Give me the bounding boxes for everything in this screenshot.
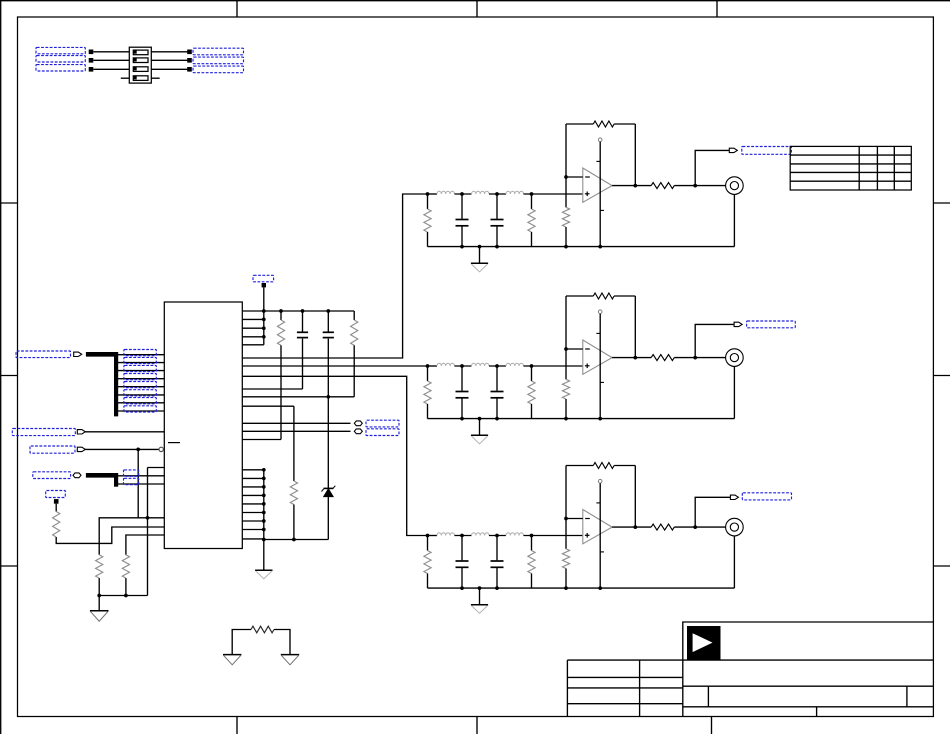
stage3 connector ground wire (733, 536, 735, 588)
junction (598, 586, 602, 590)
stage3 inverting input wire (566, 518, 583, 520)
net label input B (12, 429, 75, 436)
junction (262, 502, 266, 506)
title table row 2 (567, 687, 682, 689)
bus D branch wire 1 (116, 475, 164, 477)
wire U1 pin to Rc (242, 405, 294, 407)
wire right 2 (151, 59, 188, 61)
junction (564, 175, 568, 179)
wire power flag to rail (263, 287, 265, 311)
junction (530, 534, 534, 538)
stage3 ground stem (479, 588, 481, 605)
junction (495, 192, 499, 196)
stage2 ladder top wire seg3 (489, 365, 506, 367)
stage2 series inductor L3 (506, 363, 524, 366)
stage1 op-amp power terminal circle (598, 138, 602, 142)
junction (478, 245, 482, 249)
stage3 ground symbol (471, 604, 488, 606)
junction (495, 245, 499, 249)
stage3 ladder top wire seg2 (455, 535, 472, 537)
U1 ground pin wire 2 (242, 477, 263, 479)
stage2 series inductor L2 (472, 363, 490, 366)
net label right 2 (193, 57, 244, 64)
connector plug bus A (74, 352, 82, 356)
RN1 stub left (121, 77, 130, 79)
stage3 series inductor L2 (472, 533, 490, 536)
junction (426, 534, 430, 538)
resistor network RN1 body (129, 47, 151, 83)
junction (262, 468, 266, 472)
U1 ground pin wire 3 (242, 486, 263, 488)
junction (326, 309, 330, 313)
bus A bit label 8 (124, 406, 156, 412)
stage3 output plug (730, 495, 738, 499)
wire Re bottom (98, 578, 100, 595)
stage2 output resistor R5 (651, 355, 674, 361)
net label left 2 (36, 56, 85, 62)
junction (301, 309, 305, 313)
border zone tick right 2 (933, 375, 950, 377)
net label input C (30, 446, 75, 453)
bus D bit label 1 (124, 470, 139, 476)
stage3 op-amp plus mark (585, 534, 590, 536)
bus A branch wire 3 (116, 370, 164, 372)
test point oval 2 (354, 429, 362, 434)
U1 pin wire y328 (242, 327, 263, 329)
junction (693, 525, 697, 529)
junction (97, 594, 101, 598)
junction (495, 534, 499, 538)
U1 right pin bundle vertical (263, 311, 265, 345)
title block logo box (683, 622, 934, 716)
stage1 connector J1 inner (730, 182, 738, 190)
decoupling top rail (242, 310, 354, 312)
bus D horizontal (86, 473, 116, 478)
RN1 element 3 (133, 67, 148, 72)
stage2 connector ground wire (733, 366, 735, 418)
stage3 op-amp power terminal circle (598, 479, 602, 483)
stage1 op-amp plus mark (585, 193, 590, 195)
ground symbol Rg left (223, 654, 241, 656)
title block horizontal logo bottom (567, 659, 933, 661)
stage2 shunt capacitor C2 (496, 366, 498, 391)
net label right 1 (193, 48, 244, 55)
border zone tick top 2 (476, 1, 478, 17)
wire diode to rail (327, 496, 329, 539)
decoupling resistor Ra (280, 311, 282, 320)
decoupling capacitor Cb (327, 311, 329, 332)
title table row 3 (567, 703, 682, 705)
junction (478, 417, 482, 421)
bus A branch wire 4 (116, 378, 164, 380)
wire flag to resistor (55, 504, 57, 512)
stage2 ladder top wire seg2 (455, 365, 472, 367)
bus A branch wire 2 (116, 362, 164, 364)
stage3 bottom rail (428, 587, 735, 589)
junction (136, 448, 140, 452)
wire y467 vertical down (147, 468, 149, 596)
junction (564, 517, 568, 521)
stage2 feedback resistor R4 (593, 293, 614, 299)
stage3 inv node vertical (565, 466, 567, 549)
stage3 shunt resistor R2 (531, 536, 533, 551)
ground rail left (99, 595, 147, 597)
ground rail under U1 (264, 539, 329, 541)
ic U1 body (164, 302, 242, 549)
U1 ground pin wire 5 (242, 503, 263, 505)
wire Rf bottom (125, 578, 127, 595)
stage2 output wire (612, 357, 651, 359)
U1 pin wire y337 (242, 336, 263, 338)
RN1 stub right (151, 77, 159, 79)
wire right 1 (151, 51, 188, 53)
border zone tick bottom 1 (236, 717, 238, 734)
stage1 wire to connector (674, 185, 725, 187)
stage3 feedback shunt resistor R3 (562, 549, 569, 569)
junction (693, 356, 697, 360)
wire Rc bottom (293, 505, 295, 540)
border zone tick right 3 (933, 565, 950, 567)
stage1 ladder top wire seg1 (428, 193, 438, 195)
stage1 feedback wire right (614, 123, 635, 125)
wire left 1 (93, 51, 129, 53)
stage3 op-amp minus mark (585, 518, 590, 520)
stage1 feedback resistor R4 (593, 121, 614, 127)
power net label E (46, 491, 66, 498)
stage1 connector J1 outer (726, 177, 744, 195)
junction (478, 586, 482, 590)
stage3 series inductor L3 (506, 533, 524, 536)
RN1 element 2 (133, 58, 148, 63)
decoupling capacitor Ca (302, 311, 304, 332)
wire C to U1 inverted pin (85, 448, 159, 450)
RN1 element 4 (133, 76, 148, 81)
stage3 connector J3 outer (726, 518, 744, 536)
title right row line 2 (683, 706, 934, 708)
RN1 element 1 (133, 50, 148, 55)
junction (262, 494, 266, 498)
junction (633, 356, 637, 360)
border zone tick bottom 2 (476, 717, 478, 734)
junction (495, 586, 499, 590)
stage2 shunt capacitor C1 (461, 366, 463, 391)
stage2 power plus mark (596, 332, 600, 334)
terminal square left 1 (89, 50, 94, 55)
terminal square right 3 (187, 67, 192, 72)
ground symbol Rg right (281, 654, 299, 656)
bus A bit label 4 (124, 374, 156, 380)
stage2 op-amp minus mark (585, 348, 590, 350)
bus A bit label 3 (124, 365, 156, 371)
title right divider 2 (906, 686, 908, 707)
stage2 wire node to plug (695, 324, 734, 357)
wire right 3 (151, 68, 188, 70)
terminal square right 2 (187, 58, 192, 63)
stage1 ladder top wire seg3 (489, 193, 506, 195)
stage3 ladder top wire seg3 (489, 535, 506, 537)
bus A horizontal (86, 352, 116, 357)
net label test point 2 (366, 429, 399, 436)
junction (262, 477, 266, 481)
junction (262, 335, 266, 339)
stage1 wire node to plug (695, 150, 729, 185)
junction (460, 586, 464, 590)
stage2 power minus mark (600, 381, 604, 383)
net label left 3 (36, 65, 85, 71)
junction (326, 395, 330, 399)
junction (598, 417, 602, 421)
power net label at U1 top (253, 275, 274, 282)
terminal square right 1 (187, 50, 192, 55)
border zone tick top 3 (716, 1, 718, 17)
stage2 bottom rail (428, 418, 735, 420)
junction (279, 309, 283, 313)
junction (564, 245, 568, 249)
bus A branch wire 6 (116, 394, 164, 396)
stage1 shunt capacitor C2 (496, 194, 498, 219)
stage2 series inductor L1 (437, 363, 455, 366)
bus A branch wire 5 (116, 386, 164, 388)
junction (262, 318, 266, 322)
wire Rd to U1 pin (56, 527, 164, 543)
wire B to U1 (85, 431, 165, 433)
junction (146, 516, 150, 520)
border zone tick right 1 (933, 202, 950, 204)
title right divider 1 (707, 686, 709, 707)
junction (633, 525, 637, 529)
stage1 ladder top wire seg2 (455, 193, 472, 195)
U1 ground pin wire 8 (242, 529, 263, 531)
wire C junction down (137, 449, 139, 517)
U1 bottom pin bundle vertical (263, 470, 265, 540)
stage3 ladder top wire seg1 (428, 535, 438, 537)
logo black square (687, 626, 721, 660)
title table left edge (566, 660, 568, 716)
bus D vertical (114, 473, 118, 487)
bus A bit label 2 (124, 357, 156, 363)
junction (530, 192, 534, 196)
wire U1 pin y518 (99, 518, 164, 555)
stage1 series inductor L1 (437, 191, 455, 194)
junction (495, 417, 499, 421)
stage3 output net label (742, 493, 791, 500)
stage3 op-amp triangle (583, 510, 612, 544)
U1 ground pin wire 1 (242, 469, 263, 471)
wire rail to ground (263, 540, 265, 571)
logo white triangle (693, 633, 713, 652)
wire U1 pin y467 to left (148, 467, 165, 469)
stage1 series inductor L3 (506, 191, 524, 194)
stage1 ladder top wire seg4 (524, 193, 584, 195)
stage3 shunt resistor R1 (427, 536, 429, 551)
stage1 series inductor L2 (472, 191, 490, 194)
resistor Rf (122, 555, 129, 578)
wire Ra bottom to U1 pin (280, 345, 282, 439)
bus A branch wire 1 (116, 354, 164, 356)
bus A bit label 1 (124, 350, 156, 356)
bus D branch wire 2 (116, 483, 164, 485)
title bottom divider (816, 707, 818, 717)
junction (460, 417, 464, 421)
connector plug B (77, 430, 85, 434)
junction (530, 364, 534, 368)
stage1 inverting input wire (566, 176, 583, 178)
stage1 shunt capacitor C1 (461, 194, 463, 219)
junction (262, 309, 266, 313)
stage1 shunt resistor R1 (427, 194, 429, 209)
border zone tick bottom 3 (711, 717, 713, 734)
stage2 output plug (734, 322, 742, 326)
stage2 op-amp triangle (583, 340, 612, 374)
stage1 notes table (790, 146, 911, 190)
stage3 power minus mark (600, 551, 604, 553)
stage1 power plus mark (596, 160, 600, 162)
stage1 op-amp power vertical (599, 142, 601, 247)
wire Cb bottom to diode (327, 339, 329, 489)
junction (460, 534, 464, 538)
net label right 3 (193, 66, 244, 73)
wire ground to Rg (232, 630, 251, 655)
junction (564, 417, 568, 421)
ground symbol under U1 (255, 569, 272, 571)
stage3 shunt capacitor C1 (461, 536, 463, 561)
stage2 connector J2 outer (726, 349, 744, 367)
terminal square left 3 (89, 67, 94, 72)
stage2 wire to connector (674, 357, 725, 359)
junction (460, 364, 464, 368)
stage3 connector J3 inner (730, 523, 738, 531)
power flag square (262, 283, 266, 287)
wire U1 to test point 2 (242, 430, 350, 432)
bus A bit label 7 (124, 398, 156, 404)
stage1 output wire (612, 185, 651, 187)
bus A branch wire 8 (116, 410, 164, 412)
junction (262, 485, 266, 489)
resistor Rc (290, 481, 297, 505)
junction (292, 538, 296, 542)
wire left 2 (93, 59, 129, 61)
stage2 feedback wire right (614, 295, 635, 297)
U1 pin wire y319 (242, 318, 263, 320)
stage3 feedback resistor R4 (593, 463, 614, 469)
stage1 bottom rail (428, 246, 735, 248)
wire U1 to stage3 (242, 376, 427, 535)
junction (564, 586, 568, 590)
stage2 connector J2 inner (730, 354, 738, 362)
title table column divider (639, 660, 641, 716)
stage3 feedback wire top (566, 465, 593, 467)
bus D bit label 2 (124, 478, 139, 484)
title table row 1 (567, 676, 682, 678)
junction (460, 192, 464, 196)
stage2 inv node vertical (565, 296, 567, 379)
junction (262, 538, 266, 542)
stage1 op-amp triangle (583, 168, 612, 202)
stage1 connector ground wire (733, 194, 735, 246)
wire to ground (98, 596, 100, 611)
junction (262, 519, 266, 523)
connector plug D oval (73, 473, 81, 478)
stage1 ground symbol (471, 262, 488, 264)
junction (426, 192, 430, 196)
wire Ca bottom to U1 pin (302, 339, 304, 389)
stage2 ground stem (479, 419, 481, 436)
junction (262, 326, 266, 330)
stage3 output resistor R5 (651, 524, 674, 530)
stage3 op-amp power vertical (599, 483, 601, 588)
stage3 output wire (612, 526, 651, 528)
bus A branch wire 7 (116, 402, 164, 404)
wire left 3 (93, 68, 129, 70)
junction (262, 511, 266, 515)
net label left 1 (36, 47, 85, 53)
stage3 power plus mark (596, 502, 600, 504)
border zone tick left 1 (1, 202, 18, 204)
stage2 shunt resistor R1 (427, 366, 429, 381)
stage1 output net label (742, 147, 792, 155)
ground symbol left (90, 610, 109, 612)
stage2 ladder top wire seg1 (428, 365, 438, 367)
border zone tick left 3 (1, 565, 18, 567)
connector plug C (77, 447, 85, 451)
stage3 wire node to plug (695, 497, 730, 527)
junction (598, 245, 602, 249)
sheet outer border (0, 0, 950, 2)
border zone tick left 2 (1, 375, 18, 377)
inverter bubble on U1 pin (159, 447, 163, 451)
stage3 shunt capacitor C2 (496, 536, 498, 561)
net label bus A (16, 351, 71, 358)
stage2 op-amp power terminal circle (598, 310, 602, 314)
wire U1 pin y535 (126, 535, 164, 555)
net label bus D (33, 472, 71, 479)
junction (262, 528, 266, 532)
stage3 series inductor L1 (437, 533, 455, 536)
stage1 output plug (729, 148, 737, 152)
stage1 shunt resistor R2 (531, 194, 533, 209)
stage2 output net label (747, 321, 796, 328)
stage2 op-amp plus mark (585, 365, 590, 367)
wire U1 to test point 1 (242, 422, 350, 424)
stage1 feedback shunt resistor R3 (562, 207, 569, 227)
decoupling resistor Rb (353, 311, 355, 320)
stage1 ground stem (479, 247, 481, 264)
net label test point 1 (366, 420, 399, 427)
test point oval 1 (354, 421, 362, 426)
wire U1 to stage2 (242, 365, 427, 367)
stage2 ladder top wire seg4 (524, 365, 584, 367)
stage3 feedback wire right (614, 465, 635, 467)
wire Rg to ground (274, 630, 290, 655)
resistor Rg (251, 626, 274, 633)
stage1 feedback wire top (566, 123, 593, 125)
zener diode D1 (324, 489, 333, 497)
junction (633, 184, 637, 188)
U1 pin wire y345 (242, 344, 263, 346)
stage2 inverting input wire (566, 348, 583, 350)
junction (564, 347, 568, 351)
stage2 op-amp power vertical (599, 314, 601, 419)
bus A vertical (114, 352, 118, 416)
U1 ground pin wire 4 (242, 494, 263, 496)
stage2 feedback wire top (566, 295, 593, 297)
U1 ground pin wire 7 (242, 520, 263, 522)
junction (460, 245, 464, 249)
stage2 feedback shunt resistor R3 (562, 379, 569, 399)
junction (124, 594, 128, 598)
stage1 power minus mark (600, 209, 604, 211)
stage1 output resistor R5 (651, 183, 674, 189)
